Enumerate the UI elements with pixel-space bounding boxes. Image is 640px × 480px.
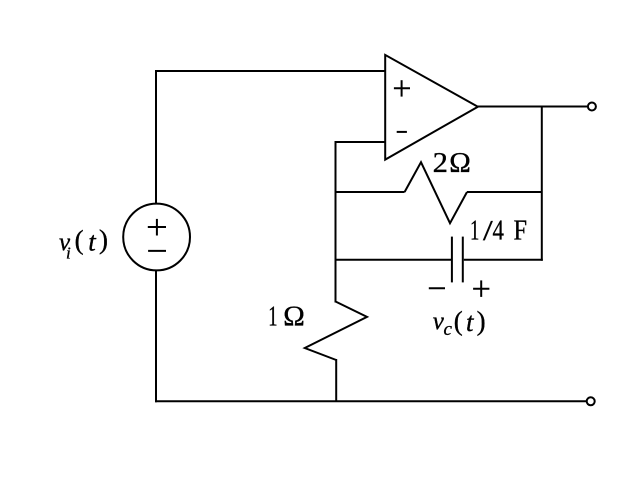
terminal: bottom right output port bbox=[587, 397, 595, 405]
svg-text:4: 4 bbox=[493, 215, 505, 247]
op-amp plus input sign bbox=[394, 80, 410, 96]
capacitor 1/4 F right plate bbox=[462, 237, 464, 283]
op-amp bbox=[385, 55, 478, 160]
wire: right vertical from output node down to capacitor right lead bbox=[541, 106, 543, 261]
wire: capacitor left lead bbox=[335, 259, 452, 261]
voltage source plus sign bbox=[148, 219, 166, 236]
svg-text:F: F bbox=[514, 215, 528, 247]
wire: 2 ohm left lead bbox=[335, 191, 405, 193]
wire: bottom rail to output terminal bbox=[155, 400, 587, 402]
svg-text:i: i bbox=[66, 244, 71, 263]
label 1 ohm bbox=[268, 300, 305, 332]
wire: 1 ohm bottom lead to bottom rail bbox=[335, 359, 337, 402]
wire: left feedback vertical bus bbox=[335, 141, 337, 303]
wire: source bottom down to bottom rail bbox=[155, 270, 157, 402]
svg-text:Ω: Ω bbox=[283, 301, 305, 333]
svg-text:c: c bbox=[444, 319, 453, 340]
terminal: top right output port bbox=[588, 103, 596, 111]
svg-text:2: 2 bbox=[433, 147, 448, 179]
resistor 2 ohm (feedback) bbox=[405, 162, 467, 223]
capacitor 1/4 F left plate bbox=[451, 237, 453, 283]
voltage source minus sign bbox=[148, 250, 166, 252]
label 2 ohm bbox=[433, 147, 471, 179]
wire: top rail to op-amp noninverting input bbox=[155, 70, 385, 72]
wire: op-amp inverting input to feedback node bbox=[336, 141, 386, 143]
svg-text:): ) bbox=[477, 306, 486, 336]
label 1/4 F bbox=[470, 215, 527, 248]
wire: capacitor right lead bbox=[464, 259, 543, 261]
svg-text:Ω: Ω bbox=[449, 147, 471, 179]
wire: op-amp output to top terminal bbox=[478, 106, 587, 108]
capacitor plus polarity sign bbox=[473, 280, 489, 297]
capacitor minus polarity sign bbox=[429, 287, 445, 289]
resistor 1 ohm bbox=[305, 302, 367, 361]
wire: left vertical from top rail down to source top bbox=[155, 70, 157, 205]
label v_c(t) bbox=[433, 306, 486, 340]
svg-text:t: t bbox=[88, 227, 97, 257]
wire: 2 ohm right lead bbox=[467, 191, 542, 193]
svg-text:t: t bbox=[466, 307, 475, 337]
voltage source v_i(t) bbox=[123, 204, 190, 271]
svg-text:1: 1 bbox=[268, 300, 277, 332]
svg-text:(: ( bbox=[454, 306, 463, 336]
label v_i(t) bbox=[59, 224, 108, 262]
svg-text:(: ( bbox=[75, 225, 84, 255]
svg-text:): ) bbox=[99, 224, 108, 254]
svg-text:1: 1 bbox=[470, 215, 479, 247]
op-amp minus input sign bbox=[397, 131, 407, 133]
